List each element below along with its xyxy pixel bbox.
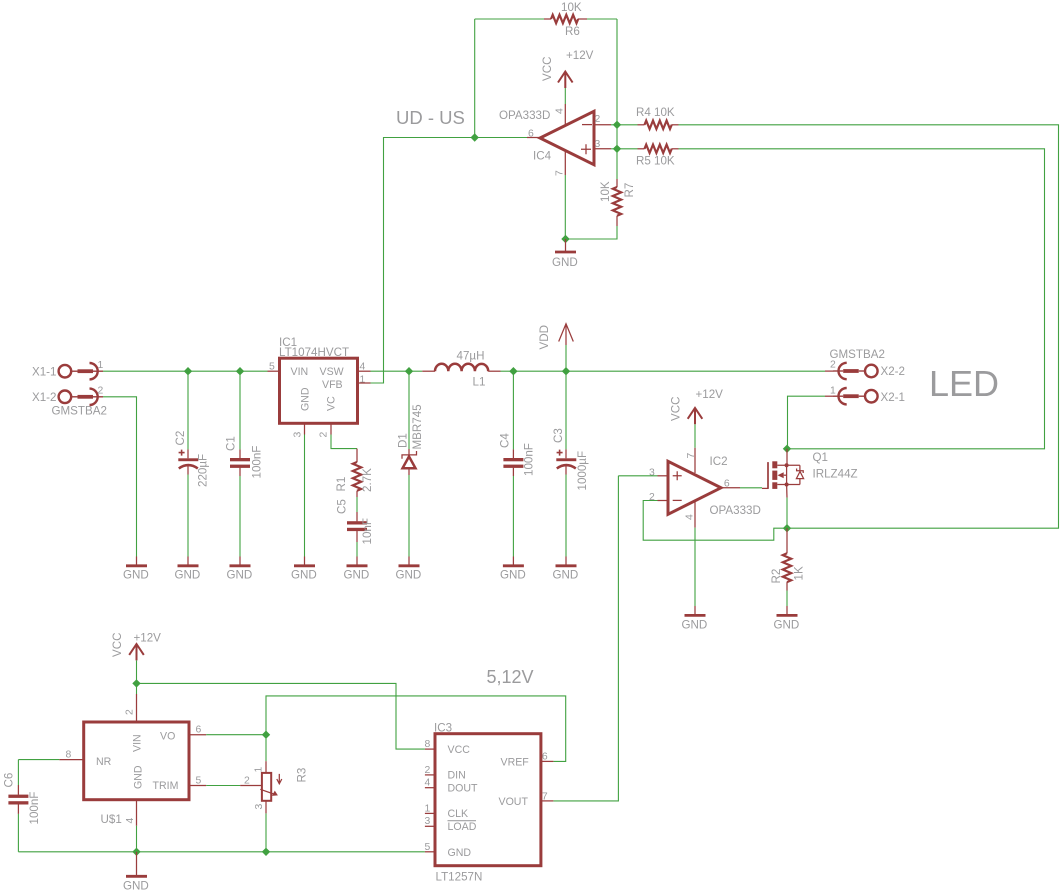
- power VCC arrow IC4: [558, 72, 573, 125]
- pin 2 stub DIN: [425, 774, 435, 776]
- svg-text:1: 1: [425, 803, 431, 814]
- wire X2-1 to drain node: [788, 396, 826, 449]
- svg-text:1: 1: [830, 385, 836, 396]
- op-amp IC4: [540, 111, 594, 164]
- svg-text:2: 2: [649, 492, 655, 503]
- svg-text:L1: L1: [473, 376, 486, 389]
- pin 2 stub: [658, 500, 669, 502]
- svg-text:7: 7: [555, 170, 566, 176]
- pin 7 wire to gnd: [564, 151, 566, 239]
- svg-text:R5 10K: R5 10K: [636, 155, 675, 168]
- svg-text:GND: GND: [175, 569, 201, 582]
- capacitor C3: [556, 371, 576, 565]
- svg-text:VCC: VCC: [448, 744, 471, 756]
- wire feedback left vertical: [474, 19, 476, 138]
- pin 1 stub VFB: [358, 382, 371, 384]
- svg-text:4: 4: [125, 818, 136, 824]
- junction R5 node: [613, 145, 621, 153]
- ground C4: [503, 565, 524, 567]
- wire R4 to UD sense: [679, 125, 1059, 528]
- svg-text:X2-1: X2-1: [881, 391, 906, 404]
- svg-text:3: 3: [649, 467, 655, 478]
- svg-text:GND: GND: [500, 569, 526, 582]
- resistor R4: [617, 121, 679, 129]
- svg-text:GND: GND: [227, 569, 253, 582]
- svg-text:GND: GND: [300, 387, 312, 411]
- pin 3 R3: [265, 801, 267, 852]
- svg-text:1: 1: [98, 360, 104, 371]
- wire VIN rail: [103, 370, 268, 372]
- ground C2: [178, 565, 199, 567]
- svg-text:NR: NR: [96, 756, 112, 768]
- pin 3 stub: [594, 148, 617, 150]
- svg-text:2: 2: [595, 114, 601, 125]
- connector X2-1: [833, 388, 877, 404]
- svg-text:GND: GND: [448, 847, 472, 859]
- connector X2-2: [833, 363, 877, 379]
- svg-text:OPA333D: OPA333D: [499, 109, 550, 122]
- capacitor C6: [8, 760, 28, 852]
- svg-text:VREF: VREF: [501, 756, 530, 768]
- connector X1-2: [59, 389, 103, 405]
- wire VDD rail: [513, 370, 825, 372]
- pin 3 stub LOAD: [425, 825, 435, 827]
- svg-text:VDD: VDD: [538, 325, 551, 349]
- power VCC arrow U$1: [129, 644, 144, 694]
- resistor R5: [617, 145, 679, 153]
- svg-text:1000µF: 1000µF: [576, 451, 589, 491]
- wire junction to L1: [409, 370, 422, 372]
- svg-text:X1-1: X1-1: [32, 366, 57, 379]
- svg-text:100nF: 100nF: [523, 443, 536, 476]
- svg-text:Q1: Q1: [813, 451, 828, 464]
- svg-text:C3: C3: [552, 428, 565, 443]
- potentiometer R3: [260, 773, 282, 801]
- svg-text:C6: C6: [3, 773, 16, 788]
- svg-text:CLK: CLK: [448, 808, 469, 820]
- inductor L1: [422, 364, 500, 371]
- svg-text:1K: 1K: [793, 566, 806, 580]
- pin 6 stub VO: [189, 734, 266, 736]
- pin 3 wire to gnd: [304, 423, 306, 565]
- pin 7 stub VOUT: [541, 476, 619, 801]
- svg-text:IC3: IC3: [434, 722, 452, 735]
- svg-text:VCC: VCC: [541, 57, 554, 81]
- resistor R7: [613, 179, 621, 226]
- wire IC4 output to VFB: [371, 138, 541, 384]
- svg-text:VIN: VIN: [132, 734, 144, 752]
- ground C1: [230, 565, 251, 567]
- pin 2 stub U$1: [136, 694, 138, 722]
- pin 4 stub VSW: [358, 370, 410, 372]
- pin name LOAD with overline: [448, 821, 477, 833]
- ground IC4: [555, 239, 576, 252]
- svg-text:D1: D1: [397, 433, 410, 448]
- resistor R1: [353, 449, 361, 512]
- svg-text:100nF: 100nF: [251, 446, 264, 479]
- junction C2 node: [184, 367, 192, 375]
- junction VCC node: [132, 679, 140, 687]
- pin 5 stub GND: [425, 851, 435, 853]
- svg-text:8: 8: [425, 739, 431, 750]
- svg-text:GND: GND: [123, 880, 149, 893]
- wire output to gate: [721, 487, 762, 489]
- svg-text:IRLZ44Z: IRLZ44Z: [813, 468, 858, 481]
- pin 6 stub VREF: [541, 760, 554, 762]
- pin 3 wire: [618, 475, 668, 477]
- junction output node: [471, 133, 479, 141]
- svg-text:GMSTBA2: GMSTBA2: [52, 405, 107, 418]
- wire R7 to gnd: [566, 226, 618, 239]
- svg-text:LT1074HVCT: LT1074HVCT: [279, 346, 349, 359]
- wire VCC to IC3: [137, 683, 425, 749]
- transistor Q1 IRLZ44Z: [762, 449, 804, 528]
- ground D1: [399, 565, 420, 567]
- svg-text:LT1257N: LT1257N: [436, 871, 483, 884]
- svg-text:IC4: IC4: [533, 150, 552, 163]
- svg-text:R2: R2: [770, 569, 783, 584]
- svg-text:2: 2: [98, 386, 104, 397]
- pin 8 stub: [425, 748, 435, 750]
- power VCC arrow IC2: [688, 408, 703, 448]
- svg-text:GND: GND: [344, 569, 370, 582]
- junction C1 node: [236, 367, 244, 375]
- svg-text:VCC: VCC: [670, 397, 683, 421]
- pin 5 stub: [268, 370, 280, 372]
- svg-text:47µH: 47µH: [457, 350, 485, 363]
- svg-text:8: 8: [66, 750, 72, 761]
- junction gnd node IC4: [561, 235, 569, 243]
- svg-text:+12V: +12V: [566, 49, 594, 62]
- svg-text:VCC: VCC: [111, 633, 124, 657]
- svg-text:10nF: 10nF: [361, 518, 374, 544]
- wire feedback right vertical: [616, 19, 618, 179]
- svg-text:GND: GND: [552, 256, 578, 269]
- svg-text:5,12V: 5,12V: [487, 667, 534, 687]
- ground X1-2: [126, 565, 147, 567]
- diode D1 MBR745: [402, 371, 417, 565]
- svg-text:GND: GND: [553, 569, 579, 582]
- svg-text:2: 2: [125, 709, 136, 715]
- svg-text:GND: GND: [123, 569, 149, 582]
- svg-text:10K: 10K: [599, 181, 612, 202]
- wire gnd rail bottom: [18, 851, 425, 853]
- svg-text:+12V: +12V: [134, 632, 162, 645]
- pin 4 wire to gnd: [694, 502, 696, 615]
- svg-text:10K: 10K: [561, 1, 582, 14]
- svg-text:IC2: IC2: [710, 455, 728, 468]
- DAC IC3 LT1257N: [435, 734, 541, 866]
- ground U$1: [126, 852, 147, 877]
- svg-text:+12V: +12V: [696, 388, 724, 401]
- pin 4 stub DOUT: [425, 787, 435, 789]
- capacitor C1: [230, 371, 250, 565]
- pin 5 stub TRIM: [189, 785, 262, 787]
- svg-text:UD - US: UD - US: [396, 107, 465, 128]
- svg-text:3: 3: [254, 804, 265, 810]
- svg-text:GND: GND: [133, 765, 145, 789]
- power VDD arrow: [559, 324, 574, 371]
- wire R6 feedback top: [475, 18, 617, 20]
- svg-text:DOUT: DOUT: [448, 783, 479, 795]
- svg-text:TRIM: TRIM: [153, 780, 179, 792]
- svg-text:1: 1: [254, 767, 265, 773]
- svg-text:GND: GND: [774, 619, 800, 632]
- svg-text:LED: LED: [929, 363, 999, 404]
- svg-text:C1: C1: [225, 436, 238, 451]
- svg-text:2: 2: [425, 765, 431, 776]
- wire L1 to C4 node: [501, 370, 514, 372]
- svg-text:MBR745: MBR745: [411, 404, 424, 449]
- junction C4 node: [509, 367, 517, 375]
- connector X1-1: [59, 363, 103, 379]
- svg-text:GND: GND: [682, 619, 708, 632]
- junction R3 gnd: [262, 848, 270, 856]
- resistor R2: [783, 528, 791, 614]
- svg-text:C5: C5: [336, 499, 349, 514]
- svg-text:GND: GND: [396, 569, 422, 582]
- svg-text:OPA333D: OPA333D: [710, 504, 761, 517]
- svg-text:LOAD: LOAD: [448, 821, 477, 833]
- pin 1 stub CLK: [425, 812, 435, 814]
- svg-text:3: 3: [425, 816, 431, 827]
- svg-text:GND: GND: [291, 569, 317, 582]
- capacitor C2: [178, 371, 198, 565]
- svg-text:1: 1: [360, 375, 366, 386]
- svg-text:VIN: VIN: [291, 366, 309, 378]
- svg-text:GMSTBA2: GMSTBA2: [830, 348, 885, 361]
- pin 7 stub: [694, 448, 696, 473]
- reference U$1: [84, 722, 189, 800]
- junction C3 node: [562, 367, 570, 375]
- IC1 regulator LT1074HVCT: [280, 358, 358, 423]
- svg-text:R1: R1: [335, 477, 348, 492]
- capacitor C4: [503, 371, 523, 565]
- svg-text:R4 10K: R4 10K: [636, 106, 675, 119]
- ground C5: [347, 565, 368, 567]
- pin 1 R3: [265, 735, 267, 773]
- svg-text:6: 6: [196, 725, 202, 736]
- junction D1 node: [405, 367, 413, 375]
- pin 4 wire U$1: [136, 800, 138, 852]
- wire feedback IC2: [643, 501, 787, 541]
- svg-text:X1-2: X1-2: [32, 391, 57, 404]
- svg-text:VC: VC: [326, 396, 338, 411]
- svg-text:VFB: VFB: [322, 379, 343, 391]
- pin 8 stub NR: [18, 759, 83, 761]
- junction source node: [783, 524, 791, 532]
- svg-text:DIN: DIN: [448, 770, 466, 782]
- resistor R6: [544, 15, 587, 23]
- svg-text:R6: R6: [565, 25, 580, 38]
- svg-text:C2: C2: [174, 431, 187, 446]
- op-amp IC2: [668, 461, 721, 514]
- junction drain node: [783, 445, 791, 453]
- svg-text:2: 2: [244, 776, 250, 787]
- svg-text:R7: R7: [623, 183, 636, 198]
- pin 2 stub: [594, 124, 617, 126]
- ground R2: [777, 614, 798, 616]
- ground C3: [556, 565, 577, 567]
- ground IC1: [294, 565, 315, 567]
- svg-text:VO: VO: [160, 731, 175, 743]
- svg-text:R3: R3: [296, 768, 309, 783]
- svg-text:5: 5: [425, 842, 431, 853]
- svg-text:4: 4: [425, 778, 431, 789]
- svg-text:4: 4: [555, 108, 566, 114]
- svg-text:3: 3: [293, 432, 304, 438]
- svg-text:2.7K: 2.7K: [361, 468, 374, 492]
- svg-text:100nF: 100nF: [28, 792, 41, 825]
- junction U$1 gnd: [132, 848, 140, 856]
- svg-text:C4: C4: [499, 433, 512, 448]
- svg-text:2: 2: [319, 432, 330, 438]
- svg-text:VOUT: VOUT: [499, 796, 529, 808]
- svg-text:4: 4: [685, 514, 696, 520]
- svg-text:5: 5: [196, 776, 202, 787]
- wire X1-2 to gnd: [103, 397, 137, 557]
- wire R5 to US sense: [679, 149, 1045, 449]
- ground IC2: [685, 614, 706, 616]
- pin 2 VC wire: [331, 423, 357, 448]
- wire VO to VREF: [266, 696, 566, 762]
- svg-text:VSW: VSW: [320, 366, 344, 378]
- capacitor C5: [347, 512, 367, 565]
- svg-text:U$1: U$1: [101, 813, 122, 826]
- svg-text:220µF: 220µF: [197, 454, 210, 487]
- svg-text:X2-2: X2-2: [881, 365, 906, 378]
- junction R4 node: [613, 121, 621, 129]
- junction VO node: [262, 731, 270, 739]
